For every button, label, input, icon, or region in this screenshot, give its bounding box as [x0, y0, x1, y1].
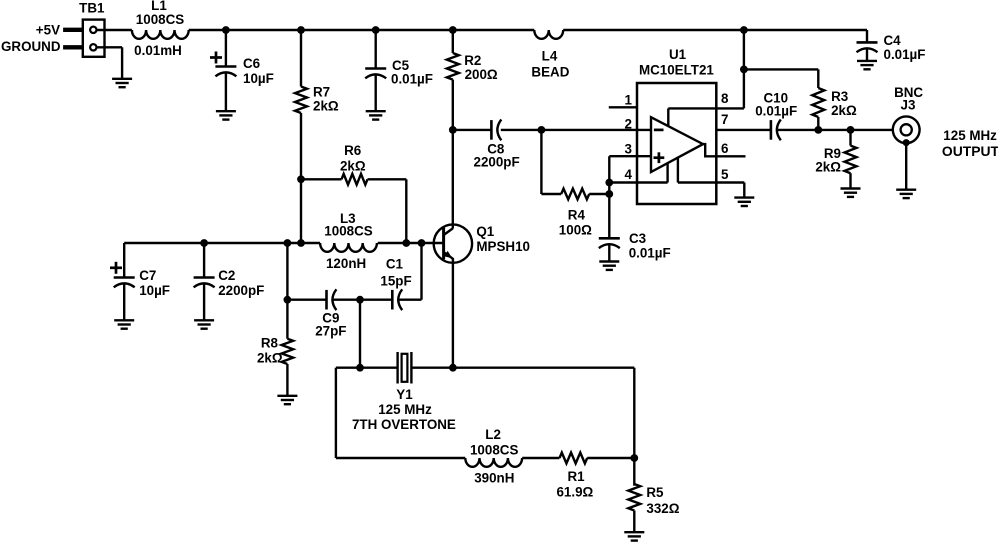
svg-text:C4: C4: [884, 33, 902, 48]
pin 7 wire: [716, 129, 771, 131]
wire TB1 ground drop: [121, 47, 123, 79]
svg-text:C5: C5: [392, 58, 410, 73]
svg-text:120nH: 120nH: [326, 256, 366, 271]
wire pin8 to box: [668, 107, 744, 109]
capacitor C2: [194, 276, 215, 279]
svg-text:2200pF: 2200pF: [218, 283, 264, 298]
U1 non-inverting input mark: [654, 156, 665, 159]
inductor L1: [132, 30, 189, 39]
pin 3 wire: [609, 155, 651, 157]
svg-text:0.01µF: 0.01µF: [884, 47, 926, 62]
capacitor C6: [215, 65, 236, 68]
wire R1 to R5 node: [587, 457, 634, 459]
capacitor C1: [391, 290, 394, 310]
inductor L4 bead: [534, 30, 563, 39]
svg-text:R7: R7: [313, 85, 330, 100]
wire R6 to corner: [368, 178, 407, 180]
svg-text:1: 1: [625, 93, 633, 108]
wire to C9: [287, 299, 326, 301]
svg-text:15pF: 15pF: [380, 273, 411, 288]
svg-text:0.01µF: 0.01µF: [391, 72, 433, 87]
inductor L2: [465, 458, 522, 467]
ground at TB1: [112, 78, 132, 80]
wire R5 to ground: [633, 511, 635, 533]
pin 2 wire: [501, 129, 651, 131]
capacitor C4: [857, 41, 878, 44]
ground at C2: [194, 319, 214, 321]
wire L2 to R1: [522, 457, 559, 459]
svg-text:390nH: 390nH: [474, 470, 514, 485]
wire C9 to C1: [333, 299, 393, 301]
svg-text:27pF: 27pF: [315, 324, 346, 339]
wire TB1 pin1 to L1: [97, 29, 132, 31]
U1 output bend to pin 6: [703, 144, 716, 156]
crystal Y1: [396, 352, 398, 384]
svg-text:0.01µF: 0.01µF: [629, 245, 671, 260]
resistor R6: [342, 174, 368, 185]
svg-text:2kΩ: 2kΩ: [340, 158, 366, 173]
node +5V input lead: [63, 28, 83, 32]
svg-text:1008CS: 1008CS: [136, 12, 184, 27]
node R8 junction: [284, 296, 292, 304]
ground at C3: [599, 260, 619, 262]
node C6 junction: [222, 26, 230, 34]
wire C7 to ground: [123, 284, 125, 321]
node C8 right junction: [538, 126, 546, 134]
wire R9 to ground: [849, 173, 851, 188]
svg-text:MC10ELT21: MC10ELT21: [639, 62, 714, 77]
svg-text:Y1: Y1: [396, 387, 413, 402]
capacitor C3: [599, 237, 620, 240]
node C5 junction: [372, 26, 380, 34]
ground at C7: [114, 319, 134, 321]
capacitor C8: [490, 120, 493, 140]
ground at C5: [366, 110, 386, 112]
pin 6 stub: [716, 155, 745, 157]
wire C8 node to R4 drop: [540, 130, 542, 194]
svg-text:+5V: +5V: [36, 22, 60, 37]
svg-text:4: 4: [625, 167, 633, 182]
ground at R8: [277, 395, 297, 397]
op-amp U1 MC10ELT21 box: [637, 83, 716, 204]
node R7 bottom junction: [297, 239, 305, 247]
wire crystal row left: [336, 367, 398, 369]
svg-text:R5: R5: [646, 485, 664, 500]
pin 4 wire: [609, 181, 667, 183]
resistor R4: [561, 189, 589, 200]
node C2 junction: [200, 239, 208, 247]
svg-text:MPSH10: MPSH10: [476, 239, 530, 254]
wire R4 to VBB node: [589, 193, 609, 195]
svg-text:200Ω: 200Ω: [465, 67, 498, 82]
svg-text:7: 7: [721, 112, 728, 127]
node R7 junction: [297, 26, 305, 34]
svg-text:R2: R2: [464, 53, 481, 68]
wire crystal row right: [411, 367, 634, 369]
svg-text:1008CS: 1008CS: [324, 224, 372, 239]
wire C9 C1 node to crystal row: [359, 300, 361, 368]
U1 inverting input mark: [654, 129, 664, 132]
node C8 left junction: [449, 126, 457, 134]
svg-text:GROUND: GROUND: [1, 39, 61, 54]
svg-text:R1: R1: [567, 469, 585, 484]
svg-text:R9: R9: [824, 146, 841, 161]
svg-text:61.9Ω: 61.9Ω: [556, 485, 593, 500]
wire C7 to L3: [124, 242, 320, 244]
wire L4 to C4: [563, 29, 867, 31]
svg-text:125 MHz: 125 MHz: [943, 128, 997, 143]
resistor R7: [295, 87, 307, 114]
wire C4 drop: [866, 30, 868, 42]
wire C10 to BNC: [777, 129, 893, 131]
svg-text:R8: R8: [261, 336, 279, 351]
svg-text:2kΩ: 2kΩ: [313, 98, 339, 113]
wire C6 to ground: [225, 73, 227, 111]
svg-text:5: 5: [721, 167, 729, 182]
svg-text:0.01µF: 0.01µF: [755, 103, 797, 118]
svg-text:2kΩ: 2kΩ: [257, 350, 283, 365]
wire L1 to C6 node: [189, 29, 226, 31]
node C9 branch junction: [284, 239, 292, 247]
node R6 left junction: [297, 175, 305, 183]
capacitor C10: [770, 120, 773, 140]
wire C2 drop: [203, 243, 205, 278]
node R1 R5 junction: [630, 454, 638, 462]
svg-text:Q1: Q1: [476, 224, 494, 239]
wire node to R5: [633, 458, 635, 486]
ground at U1 pin 5: [734, 196, 754, 198]
svg-text:R4: R4: [568, 208, 586, 223]
node R6 bottom junction: [402, 239, 410, 247]
U1 internal VBB drop: [666, 163, 668, 182]
node R3 branch junction: [740, 66, 748, 74]
svg-text:2kΩ: 2kΩ: [831, 103, 857, 118]
wire C1 to riser: [399, 299, 422, 301]
svg-text:L1: L1: [151, 0, 167, 13]
wire rail to R7: [300, 30, 302, 87]
svg-text:2: 2: [625, 117, 632, 132]
node emitter junction: [449, 364, 457, 372]
wire R6 corner drop: [405, 179, 407, 243]
inductor L3: [320, 243, 377, 252]
svg-text:R3: R3: [831, 89, 848, 104]
wire R3 top drop: [817, 69, 819, 88]
wire C1 riser: [420, 243, 422, 300]
svg-text:C7: C7: [139, 268, 156, 283]
wire rail to U1 pin 8: [743, 30, 745, 108]
svg-text:100Ω: 100Ω: [559, 223, 592, 238]
pin 1 stub: [609, 106, 637, 108]
svg-text:C2: C2: [218, 268, 235, 283]
wire collector node to C8: [453, 129, 492, 131]
node Y1 branch junction: [356, 296, 364, 304]
wire left loop drop: [335, 368, 337, 458]
U1 internal vee drop: [677, 158, 679, 183]
resistor R8: [282, 339, 294, 364]
svg-text:U1: U1: [669, 47, 687, 62]
ground at C4: [857, 60, 877, 62]
wire C7 drop: [123, 243, 125, 278]
wire R8 top: [286, 300, 288, 339]
resistor R3: [812, 88, 824, 117]
wire C5 drop: [375, 30, 377, 69]
svg-text:R6: R6: [344, 143, 361, 158]
wire C5 to ground: [375, 75, 377, 111]
wire rail to R2: [452, 30, 454, 53]
ground at BNC: [896, 188, 916, 190]
wire output to R9: [849, 130, 851, 146]
connector J3 BNC: [893, 116, 920, 143]
wire pin3 corner drop: [608, 156, 610, 238]
ground at R5: [624, 531, 644, 533]
node R2 junction: [449, 26, 457, 34]
node C1 branch junction: [418, 239, 426, 247]
svg-text:TB1: TB1: [79, 0, 105, 15]
svg-text:10µF: 10µF: [243, 71, 274, 86]
op-amp U1 triangle: [651, 117, 703, 172]
wire R3 to output: [817, 117, 819, 130]
svg-text:10µF: 10µF: [139, 283, 170, 298]
wire R7 node to R6: [301, 178, 342, 180]
svg-text:2200pF: 2200pF: [474, 155, 520, 170]
svg-text:332Ω: 332Ω: [646, 501, 679, 516]
svg-text:C6: C6: [243, 56, 260, 71]
svg-text:0.01mH: 0.01mH: [134, 43, 182, 58]
pin 5 wire: [678, 181, 744, 183]
svg-text:8: 8: [721, 91, 729, 106]
svg-text:C1: C1: [386, 256, 404, 271]
wire right drop to R1 node: [633, 368, 635, 458]
wire R8 to ground: [286, 364, 288, 396]
wire C4 to ground: [866, 49, 868, 61]
node BNC shield junction: [903, 139, 910, 146]
capacitor C7: [114, 276, 135, 279]
svg-text:6: 6: [721, 141, 728, 156]
svg-text:1008CS: 1008CS: [470, 442, 518, 457]
node pin4 junction: [605, 179, 613, 187]
wire C2 to ground: [203, 284, 205, 321]
wire C3 to ground: [608, 245, 610, 262]
U1 internal vcc riser: [667, 108, 669, 126]
svg-text:2kΩ: 2kΩ: [815, 160, 841, 175]
wire TB1 pin2 to ground: [97, 46, 123, 48]
ground at C6: [216, 110, 236, 112]
wire Q1 emitter: [452, 258, 454, 368]
node R9 output junction: [847, 126, 855, 134]
svg-text:3: 3: [625, 141, 632, 156]
terminal block TB1: [83, 20, 105, 57]
wire +5V rail: [226, 29, 534, 31]
svg-text:L4: L4: [542, 48, 558, 63]
svg-text:C3: C3: [629, 231, 646, 246]
wire C9 branch drop: [286, 243, 288, 300]
wire branch to R3: [744, 68, 818, 70]
svg-text:J3: J3: [901, 98, 916, 113]
wire loop to L2: [336, 457, 465, 459]
transistor Q1: [434, 224, 472, 262]
node GROUND input lead: [63, 45, 83, 49]
svg-text:OUTPUT: OUTPUT: [942, 143, 998, 159]
node R4 junction: [605, 190, 613, 198]
capacitor C9: [325, 290, 328, 310]
wire BNC shield to ground: [905, 143, 907, 190]
resistor R2: [447, 53, 459, 80]
svg-text:7TH OVERTONE: 7TH OVERTONE: [352, 417, 456, 432]
node crystal left junction: [356, 364, 364, 372]
wire L3 to Q1 base: [378, 242, 445, 244]
wire drop to R4: [541, 193, 561, 195]
wire R2 to collector node: [452, 80, 454, 130]
resistor R9: [845, 146, 857, 174]
svg-text:L2: L2: [485, 427, 501, 442]
node R3 output junction: [814, 126, 822, 134]
svg-text:125 MHz: 125 MHz: [378, 402, 432, 417]
resistor R5: [628, 484, 640, 511]
svg-text:BEAD: BEAD: [531, 65, 569, 80]
wire R7 to R6 node: [300, 113, 302, 243]
ground at R9: [841, 187, 861, 189]
wire Q1 collector: [452, 130, 454, 229]
pin 5 ground drop: [743, 183, 745, 198]
node VCC U1 junction: [740, 26, 748, 34]
resistor R1: [560, 453, 588, 464]
wire C6 drop: [225, 30, 227, 67]
capacitor C5: [365, 67, 386, 70]
